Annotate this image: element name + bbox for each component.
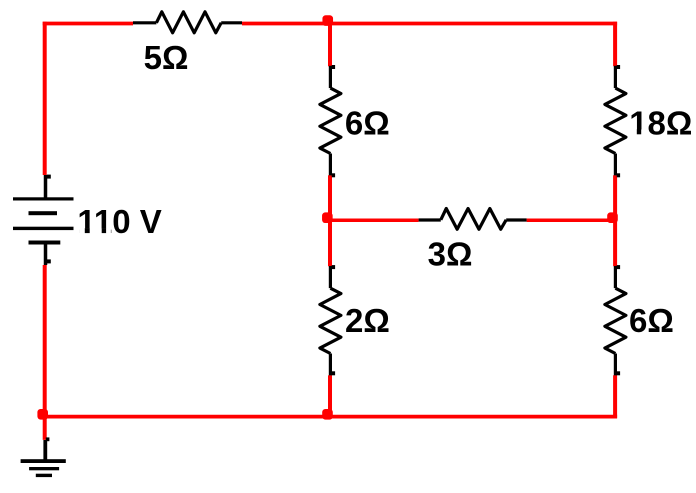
serif patch on second digit 1 of 110 V (96, 228, 111, 233)
svg-text:110 V: 110 V (77, 203, 161, 240)
svg-text:18Ω: 18Ω (629, 104, 692, 141)
ground symbol (21, 440, 66, 477)
junction dot node B (middle) (322, 212, 333, 223)
pin end mark battery bottom (47, 259, 51, 263)
resistor R3 18ohm (right rail, top) (605, 66, 626, 176)
serif patch on digit 1 of 18 ohm (631, 130, 648, 135)
wire right rail top stub (corner to R3) (613, 22, 617, 67)
wire middle rail bottom stub (R4 to bottom rail) (328, 375, 332, 418)
wire bottom rail (43, 415, 617, 419)
pin end mark R5 top (617, 265, 620, 269)
wire right rail mid segment (R3 to R5 through node C) (613, 175, 617, 266)
wire middle horizontal left (node B to R6) (330, 218, 419, 222)
wire top rail left segment (corner to R1) (43, 22, 133, 26)
serif patch on first digit 1 of 110 V (79, 228, 95, 233)
svg-text:3Ω: 3Ω (428, 235, 473, 272)
svg-text:6Ω: 6Ω (629, 302, 674, 339)
pin end mark R4 bottom (332, 371, 335, 375)
junction dot node D (bottom left) (37, 409, 48, 420)
pin end mark R3 bottom (617, 173, 620, 177)
battery V1 110V (13, 175, 74, 265)
resistor R1 5ohm (horizontal, top) (133, 12, 242, 33)
wire middle rail top stub (node A to R2) (328, 22, 332, 67)
pin end mark battery top (47, 175, 51, 179)
pin end mark R4 top (332, 265, 335, 269)
wire left rail bottom (battery - to ground node D) (43, 265, 47, 440)
wire left rail top (battery + to top-left corner) (43, 22, 47, 175)
pin end mark R5 bottom (617, 371, 620, 375)
svg-text:6Ω: 6Ω (345, 104, 390, 141)
wire middle horizontal right (R6 to node C) (527, 218, 616, 222)
wire middle rail mid segment (R2 to R4 through node B) (328, 175, 332, 266)
pin end mark R3 top (617, 65, 620, 69)
pin end mark ground (46, 437, 50, 441)
svg-text:2Ω: 2Ω (345, 302, 390, 339)
wire top rail right segment (R1 to top-right corner through node A) (242, 22, 617, 26)
pin end mark R2 bottom (332, 173, 335, 177)
svg-text:5Ω: 5Ω (144, 39, 189, 76)
junction dot node C (right middle) (607, 212, 618, 223)
resistor R6 3ohm (horizontal, middle) (419, 209, 527, 230)
resistor R5 6ohm (right rail, bottom) (605, 266, 626, 375)
pin end mark R2 top (332, 65, 335, 69)
wire right rail bottom stub (R5 to bottom-right corner) (613, 375, 617, 418)
resistor R4 2ohm (middle rail, bottom) (320, 266, 341, 375)
junction dot node A (top middle) (322, 15, 333, 26)
resistor R2 6ohm (middle rail, top) (320, 66, 341, 176)
junction dot node E (bottom middle) (322, 409, 333, 420)
